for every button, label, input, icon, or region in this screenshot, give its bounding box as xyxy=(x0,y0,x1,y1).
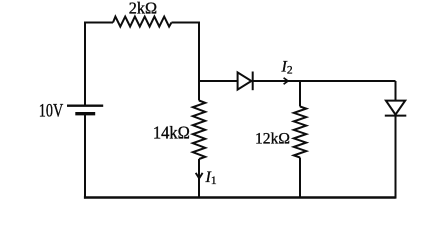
diode D2 (pointing down) xyxy=(386,101,405,115)
svg-text:I2: I2 xyxy=(281,59,293,77)
wire right vertical lower xyxy=(395,115,397,199)
wire mid left (node to diode) xyxy=(199,80,238,82)
resistor R1 2k zigzag xyxy=(113,17,172,27)
svg-text:14kΩ: 14kΩ xyxy=(153,123,190,143)
resistor R2 14k zigzag xyxy=(193,101,205,160)
wire bottom xyxy=(84,196,396,198)
arrow I2 (current right) xyxy=(284,78,288,84)
svg-text:12kΩ: 12kΩ xyxy=(255,131,290,148)
diode D1 cathode bar xyxy=(252,72,254,91)
diode D2 cathode bar xyxy=(385,115,407,117)
resistor R3 12k zigzag xyxy=(294,107,306,158)
wire below R3 to bottom xyxy=(299,158,301,198)
wire branch down to 12k xyxy=(299,81,301,107)
wire left vertical lower xyxy=(84,114,86,199)
wire left vertical upper xyxy=(84,23,86,106)
wire middle vertical (2k right leg down to 14k) xyxy=(198,23,200,101)
diode D1 (pointing right) xyxy=(238,72,252,89)
svg-text:I1: I1 xyxy=(205,169,217,187)
wire below R2 to bottom xyxy=(198,159,200,198)
battery V1 short plate xyxy=(75,112,95,115)
arrow I1 (current down) xyxy=(196,173,203,178)
wire mid right (diode to right corner) xyxy=(253,80,396,82)
wire top-left segment xyxy=(85,23,113,24)
wire top-right segment xyxy=(172,23,200,24)
svg-text:10V: 10V xyxy=(39,101,64,121)
battery V1 long plate xyxy=(67,104,103,106)
wire right vertical upper xyxy=(395,81,397,101)
svg-text:2kΩ: 2kΩ xyxy=(129,0,157,18)
